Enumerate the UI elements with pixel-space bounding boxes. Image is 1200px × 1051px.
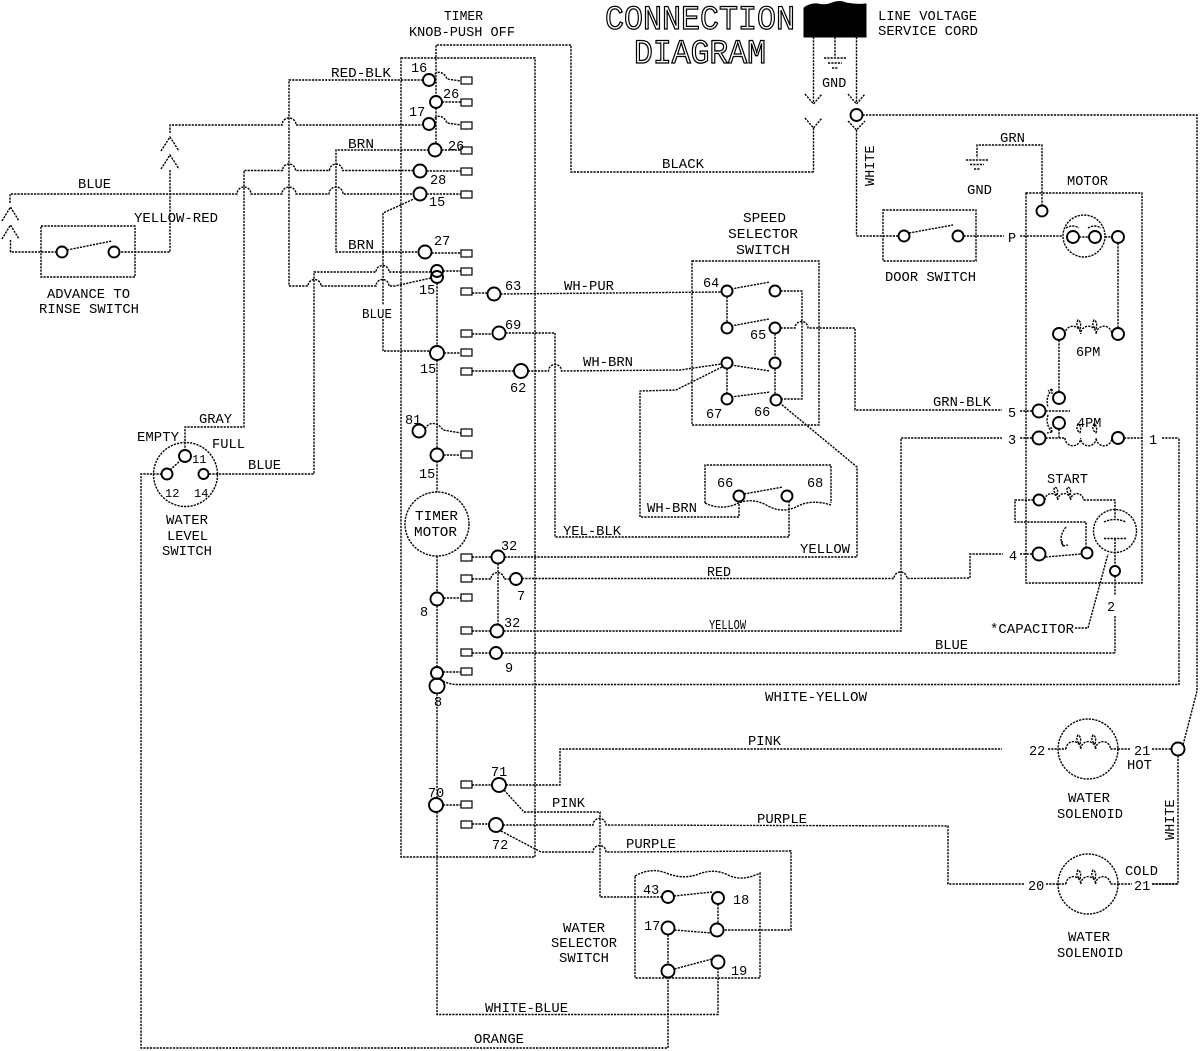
wire BLACK from plug to timer top: [436, 45, 814, 172]
svg-text:GRAY: GRAY: [199, 413, 232, 428]
label CAPACITOR with leader: [990, 554, 1108, 638]
wire WHITE down right edge to cold solenoid: [1152, 756, 1178, 885]
blade 4 to start contact: [1046, 554, 1082, 557]
winding 6PM: [1053, 320, 1124, 361]
connector arrow white male: [848, 94, 865, 104]
svg-text:BLACK: BLACK: [662, 158, 705, 173]
terminal motor right: [1112, 231, 1124, 243]
svg-text:PURPLE: PURPLE: [626, 838, 676, 853]
svg-text:START: START: [1047, 473, 1088, 488]
arc flipper upper: [1047, 389, 1052, 407]
terminal door left: [899, 231, 910, 242]
svg-text:P: P: [1008, 232, 1016, 247]
pin spade 32b: [461, 627, 472, 634]
node white connector circle: [851, 109, 863, 121]
wire WHITE-YELLOW 8b to motor 1: [443, 438, 1179, 685]
water level switch circle: [154, 443, 218, 507]
wire link 65-3R: [774, 334, 776, 358]
svg-text:15: 15: [419, 468, 435, 483]
terminal 4: [1009, 548, 1046, 566]
svg-text:RED: RED: [707, 566, 731, 581]
pin spade 69: [461, 330, 472, 337]
terminal 17w: [644, 920, 675, 935]
terminal 26b: [429, 140, 465, 157]
svg-text:GRN-BLK: GRN-BLK: [933, 396, 992, 411]
svg-text:32: 32: [504, 617, 520, 632]
wire motor 1: [1124, 437, 1179, 439]
svg-text:LINE VOLTAGE: LINE VOLTAGE: [878, 10, 977, 25]
svg-text:WH-BRN: WH-BRN: [647, 502, 697, 517]
blade 19: [675, 959, 713, 969]
svg-text:WHITE: WHITE: [1164, 799, 1179, 840]
timer box: [401, 58, 535, 857]
wire link 18-18b: [717, 904, 719, 923]
terminal 66b: [717, 477, 745, 502]
svg-text:HOT: HOT: [1127, 759, 1152, 774]
svg-text:PURPLE: PURPLE: [757, 813, 807, 828]
pin spade 26a: [461, 99, 472, 106]
speed selector switch box: [692, 261, 819, 425]
svg-text:15: 15: [429, 196, 445, 211]
svg-text:21: 21: [1134, 880, 1150, 895]
svg-text:BLUE: BLUE: [935, 639, 968, 654]
svg-text:70: 70: [428, 787, 444, 802]
wire PINK 71 to hot solenoid 22: [506, 749, 1002, 785]
wire BLUE 9 to capacitor 2: [502, 652, 1115, 654]
svg-text:BLUE: BLUE: [248, 459, 281, 474]
wire 65 to GRN-BLK motor 5: [781, 322, 1003, 411]
blade rinse switch: [67, 241, 112, 250]
terminal 3L speed: [722, 358, 733, 369]
wire bus timer motor to 8a: [436, 556, 438, 593]
pin spade 15d: [461, 451, 472, 458]
svg-text:12: 12: [165, 487, 179, 501]
terminal 65: [750, 323, 781, 345]
terminal 66 speed: [754, 395, 782, 422]
svg-text:11: 11: [192, 453, 206, 467]
blade 43-18: [674, 892, 712, 896]
svg-text:5: 5: [1008, 407, 1016, 422]
wire PINK 71 to water selector 43: [504, 790, 662, 897]
terminal GRN motor: [1037, 206, 1048, 217]
svg-text:17: 17: [644, 920, 660, 935]
wire BLUE left to terminal 15: [10, 187, 414, 203]
terminal 62: [472, 364, 528, 397]
terminal 15d: [419, 449, 461, 484]
svg-text:MOTOR: MOTOR: [1067, 175, 1108, 190]
svg-text:81: 81: [405, 414, 421, 429]
svg-text:66: 66: [754, 406, 770, 421]
svg-text:15: 15: [419, 284, 435, 299]
wire WH-PUR 63 to speed selector 64: [501, 292, 722, 294]
pin spade 9: [461, 649, 472, 656]
motor main circle: [1063, 215, 1105, 257]
svg-text:WHITE: WHITE: [864, 145, 879, 186]
terminal 28: [414, 165, 462, 190]
svg-text:BRN: BRN: [348, 138, 374, 153]
wire RED 7 to motor 4: [522, 554, 1003, 579]
motor inner contact right: [1088, 226, 1101, 243]
wire GRN with ground: [966, 145, 1042, 206]
pin spade 26b: [461, 147, 472, 154]
timer motor M1: [405, 492, 469, 556]
svg-text:2: 2: [1107, 601, 1115, 616]
door switch box: [883, 210, 976, 261]
label 8b: [431, 694, 444, 711]
wire 21 cold lead: [1118, 883, 1178, 885]
terminal 15a: [414, 188, 462, 212]
terminal rinse right: [109, 247, 120, 258]
wire link 64-65L: [726, 297, 728, 323]
svg-text:GND: GND: [822, 77, 846, 92]
svg-text:COLD: COLD: [1125, 865, 1158, 880]
svg-text:WHITE-YELLOW: WHITE-YELLOW: [765, 691, 868, 706]
svg-text:YELLOW-RED: YELLOW-RED: [134, 212, 218, 227]
svg-text:26: 26: [443, 88, 459, 103]
blade 17w-18b: [675, 930, 712, 933]
svg-text:EMPTY: EMPTY: [137, 431, 179, 446]
terminal 3: [1008, 432, 1046, 450]
wire 22 lead: [1048, 748, 1058, 750]
svg-text:20: 20: [1028, 880, 1044, 895]
svg-text:DOOR SWITCH: DOOR SWITCH: [885, 271, 976, 286]
svg-text:GND: GND: [967, 184, 992, 199]
pin spade 17: [461, 122, 472, 129]
pin spade 81: [461, 429, 472, 436]
switch fragment box 66/68: [705, 465, 831, 510]
svg-text:LEVEL: LEVEL: [167, 530, 208, 545]
svg-text:PINK: PINK: [552, 797, 586, 812]
svg-text:4PM: 4PM: [1077, 417, 1101, 432]
pin spade 7: [461, 575, 472, 582]
wire white to door switch: [857, 235, 899, 237]
pin spade 63: [461, 288, 472, 295]
svg-text:17: 17: [409, 106, 425, 121]
svg-text:14: 14: [194, 487, 208, 501]
arc flipper lower: [1047, 415, 1052, 433]
blade 5: [1046, 410, 1071, 412]
terminal 63: [472, 280, 521, 301]
terminal 11 water level: [179, 450, 191, 462]
svg-text:43: 43: [643, 884, 659, 899]
wire door switch to motor P: [964, 235, 1064, 237]
wire water level switch 14 BLUE to terminal 15 pair: [209, 266, 430, 474]
blade water level 12 to 11: [170, 460, 181, 470]
contact circle 4PM left: [1053, 417, 1065, 429]
connector arrow black male: [805, 94, 822, 104]
terminal 68: [782, 477, 824, 502]
svg-text:WATER: WATER: [166, 514, 208, 529]
terminal rinse left: [57, 247, 68, 258]
blade 66b-68: [744, 487, 783, 494]
wire link 3R-66: [774, 369, 776, 395]
connector arrow blue 2: [2, 225, 19, 239]
svg-text:WHITE-BLUE: WHITE-BLUE: [485, 1002, 568, 1017]
wire 15b to spade: [443, 270, 461, 272]
ground GND at plug: [822, 37, 846, 92]
terminal 71: [472, 766, 507, 792]
pin spade 62: [461, 368, 472, 375]
svg-text:1: 1: [1149, 434, 1157, 449]
svg-text:SELECTOR: SELECTOR: [551, 937, 617, 952]
svg-text:YEL-BLK: YEL-BLK: [563, 525, 622, 540]
pin spade 15b: [461, 268, 472, 275]
pin spade 28: [461, 168, 472, 175]
connector arrow black female: [805, 118, 822, 172]
terminal 27: [419, 235, 462, 259]
svg-text:ADVANCE TO: ADVANCE TO: [47, 288, 130, 303]
pin spade 32a: [461, 554, 472, 561]
svg-text:8: 8: [420, 606, 428, 621]
terminal lower left water selector: [662, 965, 675, 978]
svg-text:WATER: WATER: [1068, 792, 1110, 807]
connector arrow blue 1: [2, 207, 19, 221]
svg-text:FULL: FULL: [212, 438, 245, 453]
terminal 5: [1008, 405, 1046, 423]
wire 66b box to speed selector 3L: [640, 367, 739, 517]
svg-text:SELECTOR: SELECTOR: [728, 228, 798, 243]
svg-text:21: 21: [1134, 745, 1150, 760]
svg-text:8: 8: [434, 696, 442, 711]
wire blue down to rinse switch: [11, 240, 57, 252]
svg-text:CONNECTION: CONNECTION: [605, 2, 795, 40]
svg-text:62: 62: [510, 382, 526, 397]
wire GRAY from terminal 28 line down to water level switch: [185, 164, 414, 450]
svg-text:BLUE: BLUE: [362, 308, 392, 323]
connector arrow white female: [848, 121, 865, 236]
svg-text:28: 28: [430, 174, 446, 189]
terminal 8b upper: [431, 667, 461, 679]
pin spade 16: [461, 77, 472, 84]
svg-text:63: 63: [505, 280, 521, 295]
svg-text:KNOB-PUSH OFF: KNOB-PUSH OFF: [409, 26, 515, 41]
terminal 15b upper: [431, 265, 443, 277]
svg-text:19: 19: [731, 965, 747, 980]
terminal 14 water level: [199, 469, 209, 479]
svg-text:67: 67: [706, 408, 722, 423]
wire 21 hot lead: [1118, 748, 1172, 750]
terminal 26a: [430, 88, 461, 108]
terminal 15b lower: [431, 271, 443, 283]
wire BRN bracket terminals 26-27: [336, 150, 429, 252]
blade 3L: [731, 365, 770, 371]
wire black prong down: [813, 37, 815, 103]
svg-text:71: 71: [491, 766, 507, 781]
svg-text:9: 9: [505, 662, 513, 677]
wire YELLOW 32a to speed selector 66: [505, 404, 858, 557]
terminal 67: [706, 394, 733, 424]
node capacitor bottom circle: [1110, 566, 1120, 576]
arc flipper start: [1061, 527, 1068, 546]
wire motor right down to 6PM: [1117, 243, 1119, 328]
svg-text:3: 3: [1008, 434, 1016, 449]
terminal 8a: [420, 593, 461, 622]
svg-text:YELLOW: YELLOW: [709, 619, 747, 634]
terminal 32b: [472, 617, 520, 638]
pin spade 8a: [461, 594, 472, 601]
motor inner contact left: [1066, 226, 1079, 243]
contact start switch: [1082, 548, 1093, 559]
wire YEL-BLK 69 to 68: [506, 333, 790, 537]
svg-text:7: 7: [517, 590, 525, 605]
terminal 65L: [722, 323, 733, 334]
wire WH-BRN 62 to speed selector: [528, 364, 721, 371]
svg-text:SWITCH: SWITCH: [559, 952, 609, 967]
svg-text:32: 32: [501, 540, 517, 555]
svg-text:SOLENOID: SOLENOID: [1057, 808, 1123, 823]
wire inner motor: [1079, 236, 1112, 238]
svg-text:22: 22: [1029, 745, 1045, 760]
terminal 12 water level: [162, 469, 173, 480]
svg-text:*CAPACITOR: *CAPACITOR: [990, 623, 1074, 638]
wire bus 8b to 70: [436, 694, 438, 799]
terminal 81: [405, 414, 461, 438]
svg-text:ORANGE: ORANGE: [474, 1033, 524, 1048]
wire link 32a-32b: [497, 564, 499, 626]
blade 67: [731, 392, 770, 397]
motor box: [1026, 193, 1142, 583]
svg-text:SOLENOID: SOLENOID: [1057, 947, 1123, 962]
terminal 17: [409, 106, 461, 130]
svg-text:SWITCH: SWITCH: [162, 545, 212, 560]
wire bus 15 chain down timer: [436, 283, 438, 492]
svg-text:6PM: 6PM: [1076, 346, 1100, 361]
blade 65: [731, 319, 769, 326]
winding 4PM: [1046, 424, 1125, 446]
wire from RED-BLK corner to terminal 15 pair: [289, 278, 431, 286]
wire start winding to capacitor: [1084, 500, 1116, 509]
solenoid hot coil: [1058, 719, 1118, 779]
pin spade 27: [461, 250, 472, 257]
wire 6PM to contact: [1058, 340, 1060, 392]
svg-text:64: 64: [703, 277, 719, 292]
terminal 9: [472, 647, 513, 677]
pin spade 70: [461, 801, 472, 808]
wire link 17w down: [667, 935, 669, 965]
node white junction circle at solenoid: [1172, 743, 1185, 756]
svg-text:SWITCH: SWITCH: [736, 244, 790, 259]
svg-text:YELLOW: YELLOW: [800, 543, 851, 558]
wire start winding bracket to contact: [1015, 500, 1086, 547]
wire blue label wire lower: [383, 319, 430, 351]
wire PURPLE 72 to water selector 18: [501, 831, 791, 930]
pin spade 15c: [461, 349, 472, 356]
connector arrow yellow-red 1: [161, 137, 179, 151]
svg-text:DIAGRAM: DIAGRAM: [634, 36, 766, 74]
wire capacitor 2 down to blue: [1114, 576, 1116, 653]
terminal 3R speed: [770, 358, 781, 369]
terminal 19: [712, 956, 748, 981]
svg-text:68: 68: [807, 477, 823, 492]
pin spade 15a: [461, 191, 472, 198]
svg-text:SERVICE CORD: SERVICE CORD: [878, 25, 978, 40]
svg-text:PINK: PINK: [748, 735, 782, 750]
terminal 32a: [472, 540, 517, 564]
solenoid cold coil: [1058, 854, 1118, 914]
capacitor C1: [1094, 509, 1137, 566]
svg-text:16: 16: [411, 62, 427, 77]
svg-text:RINSE SWITCH: RINSE SWITCH: [39, 303, 139, 318]
svg-text:BLUE: BLUE: [78, 178, 111, 193]
svg-text:GRN: GRN: [1000, 132, 1025, 147]
terminal 64: [703, 277, 733, 297]
wire white prong down: [856, 37, 858, 103]
blade 64: [731, 282, 770, 289]
plug P1 line voltage service cord: [804, 2, 866, 38]
wire yellow-red down to rinse switch: [120, 170, 170, 252]
wire 20 lead: [1046, 883, 1058, 885]
terminal 16: [411, 62, 461, 86]
blade door switch: [909, 225, 953, 233]
wire RED-BLK to terminal 16: [289, 80, 423, 286]
terminal door right: [953, 231, 964, 242]
svg-text:WATER: WATER: [1068, 931, 1110, 946]
wire bus 26a-26b: [435, 108, 437, 144]
wire WHITE top to right edge: [863, 115, 1198, 745]
advance to rinse switch box: [41, 226, 135, 277]
svg-text:TIMER: TIMER: [444, 10, 483, 25]
terminal 72: [472, 818, 508, 854]
svg-text:WH-BRN: WH-BRN: [583, 356, 633, 371]
svg-text:72: 72: [492, 839, 508, 854]
terminal 15c: [420, 346, 461, 378]
svg-text:SPEED: SPEED: [743, 212, 786, 227]
svg-text:WH-PUR: WH-PUR: [564, 280, 614, 295]
terminal 64R: [770, 286, 781, 297]
wire bus 8a to 8b: [436, 606, 438, 668]
svg-text:TIMER: TIMER: [415, 510, 458, 525]
terminal 7: [472, 573, 525, 606]
wire YELLOW-RED to terminal 17: [170, 118, 422, 133]
contact circle above 5: [1053, 392, 1065, 404]
pin spade 72: [461, 821, 472, 828]
terminal 8b lower: [430, 679, 445, 694]
svg-text:69: 69: [505, 319, 521, 334]
wire YELLOW 32b to motor 3: [504, 438, 1003, 631]
label BLUE timer left: [360, 305, 394, 323]
wire 64R to 66: [781, 291, 803, 399]
terminal 18b: [711, 924, 724, 937]
wire water level 12 to ORANGE bottom: [141, 474, 668, 1048]
terminal 18: [712, 892, 749, 909]
pin spade 8b: [461, 668, 472, 675]
connector arrow yellow-red 2: [161, 155, 179, 169]
svg-text:65: 65: [750, 329, 766, 344]
wire PURPLE 72 to cold solenoid 20: [503, 819, 1024, 885]
pin spade 71: [461, 781, 472, 788]
svg-text:4: 4: [1009, 550, 1017, 565]
winding START: [1034, 487, 1084, 506]
svg-text:27: 27: [434, 235, 450, 250]
wire 15a diagonal to blue label wire: [383, 198, 416, 305]
svg-text:MOTOR: MOTOR: [414, 526, 457, 541]
water selector switch box: [635, 871, 760, 978]
terminal 43: [643, 884, 674, 903]
terminal 70: [428, 787, 461, 812]
wire WHITE-BLUE 70 to water selector 19: [437, 812, 718, 1015]
svg-text:18: 18: [733, 894, 749, 909]
terminal 69: [472, 319, 521, 340]
svg-text:15: 15: [420, 363, 436, 378]
svg-text:66: 66: [717, 477, 733, 492]
wire link 3L-67: [726, 369, 728, 394]
svg-text:WATER: WATER: [563, 922, 605, 937]
